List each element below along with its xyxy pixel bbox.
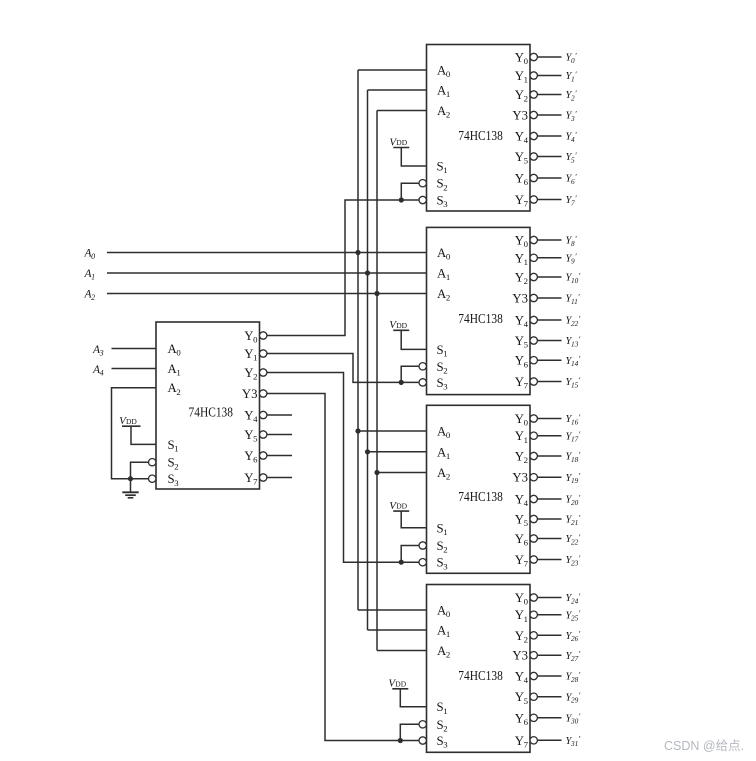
- U4 output bubble Y3 (active-low): [530, 474, 537, 481]
- svg-text:74HC138: 74HC138: [189, 405, 234, 420]
- junction net A0 at horizontal bus: [355, 250, 360, 255]
- wire U3.Y7 output stub: [537, 381, 561, 383]
- svg-text:Y3: Y3: [242, 387, 258, 401]
- U5 output bubble Y0 (active-low): [530, 594, 537, 601]
- svg-text:DD: DD: [126, 417, 137, 426]
- wire U3.Y3 output stub: [537, 297, 561, 299]
- wire U2.Y0 output stub: [537, 56, 561, 58]
- svg-text:DD: DD: [396, 502, 407, 511]
- wire U2.Y2 output stub: [537, 94, 561, 96]
- wire U5.S2 bracket to S3 net: [400, 724, 419, 740]
- wire U5.Y6 output stub: [537, 717, 561, 719]
- wire U2.Y5 output stub: [537, 156, 561, 158]
- wire net A2 horizontal bus into U3.A2: [107, 293, 427, 295]
- wire U3.Y4 output stub: [537, 319, 561, 321]
- U3 output bubble Y3 (active-low): [530, 294, 537, 301]
- wire U1.Y5 open stub: [267, 434, 292, 436]
- svg-text:74HC138: 74HC138: [458, 489, 503, 504]
- svg-text:Y3: Y3: [512, 292, 528, 306]
- U5 output bubble Y2 (active-low): [530, 632, 537, 639]
- wire U1.A2 tied down to ground/S3 net: [112, 388, 157, 479]
- wire U1.Y7 open stub: [267, 477, 292, 479]
- wire U5.Y2 output stub: [537, 634, 561, 636]
- U2 output bubble Y3 (active-low): [530, 111, 537, 118]
- U3 output bubble Y2 (active-low): [530, 273, 537, 280]
- U1 output bubble Y4 (active-low): [260, 411, 267, 418]
- U2 output bubble Y2 (active-low): [530, 91, 537, 98]
- wire U3.Y0 output stub: [537, 239, 561, 241]
- junction net A1 at U4 branch: [365, 449, 370, 454]
- wire U4.Y0 output stub: [537, 418, 561, 420]
- wire net A1 branch to U5.A1: [368, 629, 427, 631]
- junction net A2 at horizontal bus: [374, 291, 379, 296]
- wire U1.Y4 open stub: [267, 414, 292, 416]
- U1 output bubble Y0 (active-low): [260, 332, 267, 339]
- wire net A1 vertical riser: [367, 90, 369, 630]
- U1 output bubble Y1 (active-low): [260, 350, 267, 357]
- junction net A2 at U4 branch: [374, 470, 379, 475]
- wire net A0 branch to U5.A0: [358, 609, 427, 611]
- wire U4.Y7 output stub: [537, 559, 561, 561]
- junction net A0 at U4 branch: [355, 428, 360, 433]
- decoder U1 74HC138 (left, first stage) body: [156, 322, 260, 489]
- U5 output bubble Y5 (active-low): [530, 693, 537, 700]
- wire input A3 to U1.A0: [112, 348, 157, 350]
- U1 output bubble Y7 (active-low): [260, 474, 267, 481]
- VDD power symbol for U4: [389, 500, 426, 528]
- wire U3.Y5 output stub: [537, 340, 561, 342]
- svg-text:CSDN @给点.: CSDN @给点.: [664, 739, 744, 753]
- wire net U1.Y1 to U3.S3/S2 enable: [267, 354, 419, 383]
- U5 output bubble Y6 (active-low): [530, 714, 537, 721]
- wire U4.S2 bracket to S3 net: [401, 546, 419, 563]
- wire net A0 branch to U2.A0: [358, 69, 427, 71]
- wire U1.Y6 open stub: [267, 455, 292, 457]
- wire U5.Y7 output stub: [537, 739, 561, 741]
- U2 enable bubble S3 (active-low): [419, 196, 426, 203]
- wire U3.Y1 output stub: [537, 257, 561, 259]
- wire U5.Y5 output stub: [537, 696, 561, 698]
- wire U3.Y2 output stub: [537, 276, 561, 278]
- wire net A0 vertical riser: [357, 70, 359, 610]
- U2 output bubble Y5 (active-low): [530, 153, 537, 160]
- wire U1.S2 bracket to S3 net: [131, 462, 149, 479]
- junction net A1 at horizontal bus: [365, 270, 370, 275]
- wire net A2 branch to U5.A2: [377, 650, 427, 652]
- ground symbol: [122, 479, 138, 498]
- U3 output bubble Y5 (active-low): [530, 337, 537, 344]
- U1 enable bubble S3 (active-low): [149, 475, 156, 482]
- wire U5.Y1 output stub: [537, 614, 561, 616]
- wire U5.Y4 output stub: [537, 675, 561, 677]
- wire U4.Y1 output stub: [537, 435, 561, 437]
- U1 output bubble Y5 (active-low): [260, 431, 267, 438]
- wire net U1.Y3 to U5.S3/S2 enable: [267, 394, 419, 741]
- junction U4 S2/S3 enable net: [399, 560, 404, 565]
- U3 output bubble Y4 (active-low): [530, 316, 537, 323]
- U1 output bubble Y2 (active-low): [260, 369, 267, 376]
- U1 output bubble Y3 (active-low): [260, 390, 267, 397]
- junction on U1 S3/ground net: [128, 476, 133, 481]
- wire U4.Y5 output stub: [537, 518, 561, 520]
- decoder U4 74HC138 body: [427, 405, 531, 573]
- wire net A2 branch to U4.A2: [377, 472, 427, 474]
- wire U2.Y4 output stub: [537, 135, 561, 137]
- wire U4.Y4 output stub: [537, 498, 561, 500]
- svg-text:Y3: Y3: [512, 109, 528, 123]
- decoder U5 74HC138 body: [427, 585, 531, 753]
- U3 output bubble Y0 (active-low): [530, 236, 537, 243]
- VDD power symbol for U1 feeding S1: [119, 415, 156, 444]
- junction U2 S2/S3 enable net: [399, 197, 404, 202]
- wire net A1 horizontal bus into U3.A1: [107, 272, 427, 274]
- svg-text:DD: DD: [396, 138, 407, 147]
- U4 enable bubble S3 (active-low): [419, 559, 426, 566]
- wire U5.Y0 output stub: [537, 597, 561, 599]
- svg-text:74HC138: 74HC138: [458, 311, 503, 326]
- wire net A2 vertical riser: [376, 111, 378, 651]
- svg-text:Y3: Y3: [512, 471, 528, 485]
- svg-text:74HC138: 74HC138: [458, 668, 503, 683]
- wire U4.Y6 output stub: [537, 538, 561, 540]
- U5 enable bubble S2 (active-low): [419, 721, 426, 728]
- decoder U2 74HC138 body: [427, 45, 531, 212]
- U4 enable bubble S2 (active-low): [419, 542, 426, 549]
- U4 output bubble Y1 (active-low): [530, 432, 537, 439]
- U5 output bubble Y1 (active-low): [530, 611, 537, 618]
- junction U3 S2/S3 enable net: [399, 380, 404, 385]
- wire U5.Y3 output stub: [537, 654, 561, 656]
- svg-text:74HC138: 74HC138: [458, 128, 503, 143]
- svg-text:DD: DD: [395, 679, 406, 688]
- U3 output bubble Y7 (active-low): [530, 378, 537, 385]
- U5 enable bubble S3 (active-low): [419, 737, 426, 744]
- wire input A4 to U1.A1: [112, 368, 157, 370]
- U2 output bubble Y1 (active-low): [530, 72, 537, 79]
- U4 output bubble Y0 (active-low): [530, 415, 537, 422]
- wire net A1 branch to U4.A1: [368, 451, 427, 453]
- U2 output bubble Y6 (active-low): [530, 174, 537, 181]
- U1 enable bubble S2 (active-low): [149, 459, 156, 466]
- VDD power symbol for U2: [389, 136, 426, 166]
- wire U2.Y7 output stub: [537, 199, 561, 201]
- U2 output bubble Y0 (active-low): [530, 53, 537, 60]
- U4 output bubble Y2 (active-low): [530, 452, 537, 459]
- wire net A1 branch to U2.A1: [368, 89, 427, 91]
- U5 output bubble Y3 (active-low): [530, 652, 537, 659]
- wire U2.S2 bracket to S3 net: [401, 183, 419, 200]
- U5 output bubble Y7 (active-low): [530, 737, 537, 744]
- svg-text:Y3: Y3: [512, 649, 528, 663]
- U3 output bubble Y6 (active-low): [530, 357, 537, 364]
- wire U4.Y2 output stub: [537, 455, 561, 457]
- U2 output bubble Y4 (active-low): [530, 132, 537, 139]
- U4 output bubble Y5 (active-low): [530, 515, 537, 522]
- wire U3.S2 bracket to S3 net: [401, 366, 419, 382]
- U4 output bubble Y4 (active-low): [530, 495, 537, 502]
- U3 enable bubble S3 (active-low): [419, 379, 426, 386]
- wire net A2 branch to U2.A2: [377, 110, 427, 112]
- wire net A0 horizontal bus into U3.A0: [107, 252, 427, 254]
- U3 output bubble Y1 (active-low): [530, 254, 537, 261]
- svg-text:DD: DD: [396, 321, 407, 330]
- wire net A0 branch to U4.A0: [358, 430, 427, 432]
- U5 output bubble Y4 (active-low): [530, 672, 537, 679]
- wire U2.Y3 output stub: [537, 114, 561, 116]
- U4 output bubble Y6 (active-low): [530, 535, 537, 542]
- VDD power symbol for U3: [389, 319, 426, 349]
- wire net U1.Y2 to U4.S3/S2 enable: [267, 373, 419, 563]
- U2 enable bubble S2 (active-low): [419, 180, 426, 187]
- U4 output bubble Y7 (active-low): [530, 556, 537, 563]
- VDD power symbol for U5: [388, 678, 426, 707]
- U2 output bubble Y7 (active-low): [530, 196, 537, 203]
- U1 output bubble Y6 (active-low): [260, 452, 267, 459]
- wire U2.Y1 output stub: [537, 75, 561, 77]
- wire U3.Y6 output stub: [537, 359, 561, 361]
- junction U5 S2/S3 enable net: [398, 738, 403, 743]
- decoder U3 74HC138 body: [427, 227, 531, 394]
- wire U4.Y3 output stub: [537, 476, 561, 478]
- wire net U1.Y0 to U2.S3/S2 enable: [267, 200, 419, 336]
- U3 enable bubble S2 (active-low): [419, 363, 426, 370]
- wire U2.Y6 output stub: [537, 177, 561, 179]
